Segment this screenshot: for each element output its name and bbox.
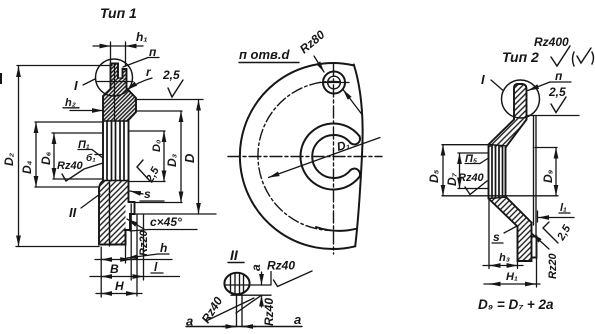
ellipse section xyxy=(224,273,249,294)
rim hatched body xyxy=(103,64,136,181)
hub hatched xyxy=(99,181,129,245)
dim D7 xyxy=(458,152,489,154)
band grooves xyxy=(107,121,124,181)
svg-text:Rz40: Rz40 xyxy=(262,298,276,326)
rim hatched xyxy=(514,84,527,120)
svg-text:Rz40: Rz40 xyxy=(458,172,485,184)
svg-text:Rz40: Rz40 xyxy=(57,160,84,172)
a-a section line xyxy=(186,326,302,328)
svg-text:2,5: 2,5 xyxy=(548,85,566,99)
notch inner xyxy=(118,77,123,79)
svg-text:D₅: D₅ xyxy=(427,169,441,183)
svg-text:r: r xyxy=(146,65,152,79)
svg-text:2,5: 2,5 xyxy=(555,222,574,243)
hub internal line xyxy=(109,183,111,246)
svg-text:II: II xyxy=(69,205,77,220)
step faces xyxy=(126,214,135,245)
svg-text:Rz400: Rz400 xyxy=(534,35,569,49)
svg-text:D₀: D₀ xyxy=(151,140,163,152)
extension verticals bottom xyxy=(100,247,102,297)
svg-text:II: II xyxy=(230,247,239,263)
dim H xyxy=(96,293,142,295)
svg-text:Тип 1: Тип 1 xyxy=(100,5,137,21)
rim crossline xyxy=(97,81,133,83)
C annulus xyxy=(300,123,359,189)
dim D9 xyxy=(535,147,557,149)
svg-text:п отв.d: п отв.d xyxy=(239,47,291,62)
edge tick xyxy=(0,73,2,84)
stem xyxy=(237,294,243,327)
right cut edge xyxy=(354,65,363,247)
dim D4 xyxy=(35,121,103,123)
svg-text:I: I xyxy=(481,72,485,87)
svg-text:б₁: б₁ xyxy=(86,152,96,164)
D1 line xyxy=(269,138,381,178)
svg-text:l₁: l₁ xyxy=(560,202,567,214)
svg-text:D₂: D₂ xyxy=(2,152,16,166)
hub hatched xyxy=(518,223,532,262)
dim D3 xyxy=(137,110,182,112)
hub outline xyxy=(99,181,135,245)
svg-text:h: h xyxy=(160,241,167,255)
rim outline xyxy=(111,64,127,90)
svg-text:h₃: h₃ xyxy=(499,252,510,264)
svg-text:2,5: 2,5 xyxy=(162,68,180,82)
center line vertical xyxy=(333,64,335,254)
svg-text:Rz40: Rz40 xyxy=(267,259,295,273)
svg-text:l: l xyxy=(154,260,158,274)
svg-text:D: D xyxy=(182,153,197,163)
svg-text:с×45°: с×45° xyxy=(150,215,182,229)
bottom inner circle edge xyxy=(316,227,356,231)
svg-text:2,5: 2,5 xyxy=(144,164,163,185)
dim D0 xyxy=(129,130,165,132)
svg-text:Тип 2: Тип 2 xyxy=(502,49,539,65)
svg-text:а: а xyxy=(186,314,193,329)
svg-text:D₇: D₇ xyxy=(445,172,459,186)
step xyxy=(532,237,537,258)
svg-text:D₆: D₆ xyxy=(39,151,53,165)
mid line xyxy=(225,284,271,286)
svg-text:H: H xyxy=(115,279,124,293)
svg-text:a: a xyxy=(249,264,263,271)
dim line 2 xyxy=(90,276,180,278)
leader to hole xyxy=(343,90,362,115)
svg-text:s: s xyxy=(144,187,151,201)
band xyxy=(489,145,506,199)
a dim vertical xyxy=(261,272,263,285)
center line horizontal xyxy=(228,156,382,158)
pitch circle dash-dot xyxy=(258,81,340,230)
cone outline left xyxy=(103,89,111,181)
outer circle arc xyxy=(240,63,355,249)
svg-text:п: п xyxy=(555,69,563,83)
dim line B/l xyxy=(95,259,172,261)
dim D5 xyxy=(442,144,488,146)
svg-text:H₁: H₁ xyxy=(506,271,518,283)
cone outline right xyxy=(127,88,137,181)
svg-text:D₉ = D₇ + 2a: D₉ = D₇ + 2a xyxy=(478,297,554,312)
bottom ext line xyxy=(231,294,271,296)
svg-text:h₁: h₁ xyxy=(136,30,148,44)
svg-text:Rz80: Rz80 xyxy=(297,27,328,56)
dim D xyxy=(135,213,217,215)
cone 2 hatched xyxy=(489,197,532,227)
cone 1 hatched xyxy=(489,120,527,148)
detail circle I xyxy=(96,59,133,96)
band white area xyxy=(104,121,129,181)
svg-text:I: I xyxy=(74,78,78,93)
svg-text:D₃: D₃ xyxy=(165,153,179,167)
hole n otv d xyxy=(323,72,345,94)
svg-text:Rz20: Rz20 xyxy=(547,252,559,279)
dim D2 xyxy=(17,65,112,67)
svg-text:D₁: D₁ xyxy=(335,137,351,154)
svg-text:D₉: D₉ xyxy=(541,169,555,183)
svg-text:B: B xyxy=(110,262,119,276)
svg-text:Rz40: Rz40 xyxy=(199,294,226,325)
back face lines xyxy=(533,116,535,226)
band top edge xyxy=(103,120,129,122)
svg-text:s: s xyxy=(493,230,500,244)
detail circle I xyxy=(502,80,540,118)
dim D6 xyxy=(52,132,103,134)
svg-text:D₄: D₄ xyxy=(20,160,34,174)
svg-text:а: а xyxy=(294,312,301,327)
band bottom edge xyxy=(103,180,129,182)
